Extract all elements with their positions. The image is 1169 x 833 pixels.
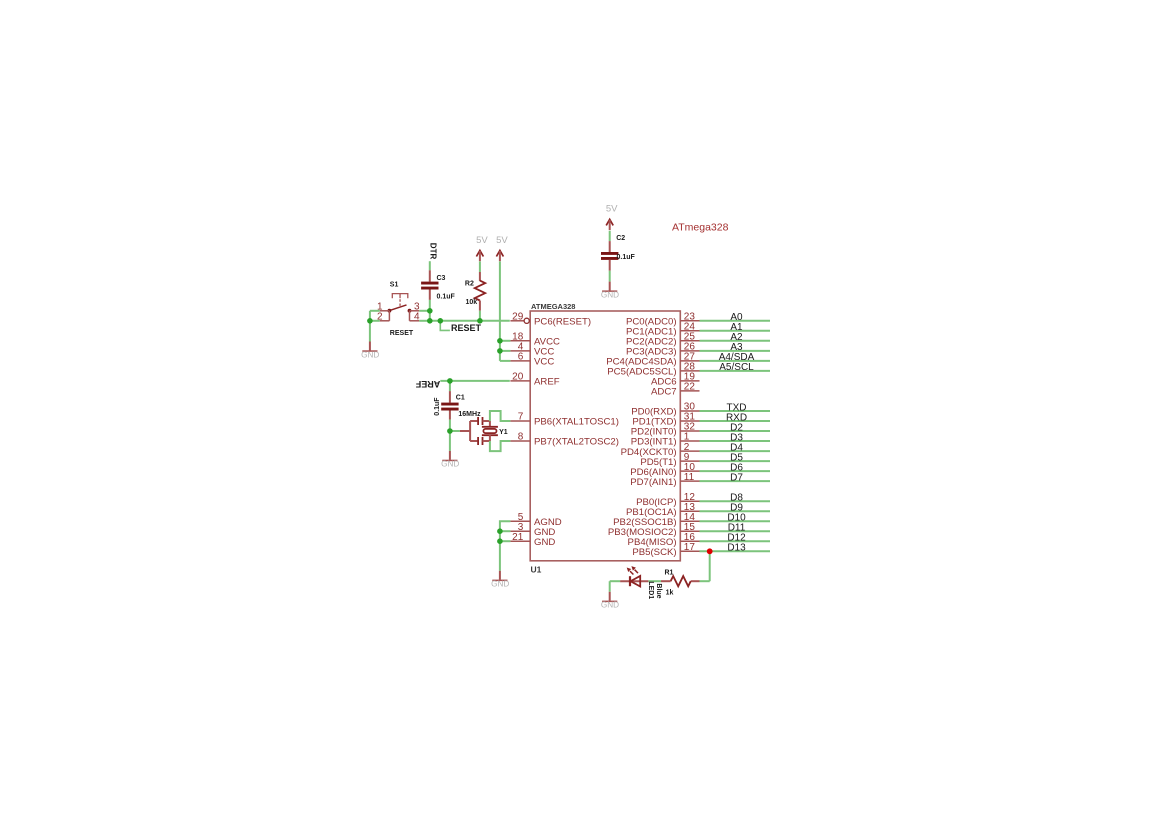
wire net D9	[700, 510, 771, 512]
svg-text:PB6(XTAL1TOSC1): PB6(XTAL1TOSC1)	[534, 417, 619, 428]
power 5V supply symbol (C2)	[606, 204, 618, 230]
crystal network left bracket	[460, 421, 478, 441]
svg-text:U1: U1	[531, 565, 542, 575]
pin 30 PD0(RXD) (right)	[631, 402, 699, 418]
capacitor C2 lead bottom	[609, 260, 611, 271]
wire S1 pin2	[370, 320, 380, 322]
capacitor C2	[601, 252, 618, 260]
pin 16 PB4(MISO) (right)	[628, 532, 700, 548]
pin 22 ADC7 (right)	[651, 382, 699, 398]
pin 23 PC0(ADC0) (right)	[626, 312, 700, 328]
switch S1 pin 4	[410, 311, 420, 323]
wire C2 to GND	[609, 271, 611, 282]
LED LED1 symbol	[620, 566, 648, 586]
svg-text:R1: R1	[665, 570, 674, 577]
wire rail to VCC pin4	[500, 350, 511, 352]
wire crystal to PB7 (staircase)	[490, 441, 511, 451]
ground (below LED1)	[601, 592, 619, 610]
wire net D3	[700, 440, 771, 442]
wire net D4	[700, 450, 771, 452]
switch S1 pin 2	[377, 311, 389, 323]
junction rail/GND pin21	[497, 538, 503, 544]
wire junction down to GND	[449, 431, 451, 451]
wire 5V to R2	[479, 261, 481, 272]
svg-text:4: 4	[414, 312, 420, 323]
wire net D5	[700, 460, 771, 462]
IC U1 ATmega328 body	[530, 311, 680, 561]
wire R1 to LED1 anode	[648, 580, 661, 582]
switch S1 symbol	[388, 294, 412, 313]
pin 11 PD7(AIN1) (right)	[630, 472, 699, 488]
pin 27 PC4(ADC4SDA) (right)	[606, 352, 699, 368]
wire crystal to PB6 (staircase)	[490, 411, 511, 421]
pin 17 PB5(SCK) (right)	[632, 542, 699, 558]
resistor R1 lead right	[691, 580, 700, 582]
pin 28 PC5(ADC5SCL) (right)	[607, 362, 699, 378]
ground (below S1)	[361, 342, 379, 360]
pin 31 PD1(TXD) (right)	[632, 412, 699, 428]
pin 1 PD3(INT1) (right)	[631, 432, 700, 448]
pin 9 PD5(T1) (right)	[640, 452, 699, 468]
svg-text:ATmega328: ATmega328	[672, 222, 729, 234]
pin 32 PD2(INT0) (right)	[631, 422, 700, 438]
wire rail to VCC pin6	[500, 360, 511, 362]
pin 20 AREF (left)	[510, 372, 559, 388]
svg-text:S1: S1	[390, 281, 399, 288]
svg-text:11: 11	[684, 472, 695, 483]
pin 24 PC1(ADC1) (right)	[626, 322, 700, 338]
svg-text:22: 22	[684, 382, 696, 393]
junction S1/GND	[367, 318, 373, 324]
load capacitor bottom (XTAL2)	[478, 437, 490, 445]
pin 7 PB6(XTAL1TOSC1) (left)	[510, 412, 619, 428]
ground (below C2)	[601, 282, 619, 300]
svg-text:GND: GND	[491, 580, 509, 589]
junction C3/RESET wire	[427, 318, 433, 324]
svg-text:PD7(AIN1): PD7(AIN1)	[630, 477, 676, 488]
svg-text:29: 29	[512, 312, 524, 323]
wire S1 pin3 to C3 net	[419, 310, 430, 312]
svg-text:Y1: Y1	[499, 429, 508, 436]
svg-text:17: 17	[684, 542, 696, 553]
junction rail/AVCC	[497, 338, 503, 344]
pin 19 ADC6 (right)	[651, 372, 699, 388]
wire 5V rail vertical	[499, 261, 501, 361]
junction C3/S1 pin3	[427, 308, 433, 314]
capacitor C3	[421, 282, 438, 290]
pin 12 PB0(ICP) (right)	[636, 492, 699, 508]
capacitor C3 lead bottom	[429, 290, 431, 300]
wire net D12	[700, 540, 771, 542]
junction RESET label	[438, 318, 444, 324]
wire rail to GND pin3	[500, 530, 511, 532]
wire net RXD	[700, 420, 771, 422]
pin 13 PB1(OC1A) (right)	[626, 502, 700, 518]
pin 2 PD4(XCKT0) (right)	[621, 442, 700, 458]
resistor R2 lead top	[479, 272, 481, 281]
pin 8 PB7(XTAL2TOSC2) (left)	[510, 432, 619, 448]
capacitor C2 lead top	[609, 241, 611, 252]
pin 21 GND (left)	[510, 532, 555, 548]
junction C1/Y1/GND	[447, 428, 453, 434]
wire RESET net to pin 29	[430, 320, 510, 322]
wire S1 left vertical	[369, 311, 371, 321]
wire net A2	[700, 340, 771, 342]
svg-text:8: 8	[518, 432, 524, 443]
wire net D8	[700, 500, 771, 502]
svg-text:20: 20	[512, 372, 524, 383]
wire AREF to C1	[449, 381, 451, 391]
pin 5 AGND (left)	[510, 512, 561, 528]
svg-text:7: 7	[518, 412, 524, 423]
capacitor C3 lead top	[429, 270, 431, 281]
resistor R1 lead left	[661, 580, 671, 582]
svg-text:AREF: AREF	[415, 379, 440, 389]
wire S1 to GND	[369, 321, 371, 342]
wire net D7	[700, 480, 771, 482]
wire R2 to RESET net	[479, 311, 481, 321]
wire net A4/SDA	[700, 360, 771, 362]
wire GND rail corner to AGND	[500, 521, 511, 541]
wire DTR to C3	[429, 261, 431, 270]
wire rail down to GND symbol	[499, 541, 501, 571]
wire net A3	[700, 350, 771, 352]
wire net D10	[700, 520, 771, 522]
resistor R2 zigzag	[475, 281, 486, 301]
junction R2/RESET wire	[477, 318, 483, 324]
crystal Y1 symbol	[482, 421, 498, 441]
svg-text:C2: C2	[616, 235, 625, 242]
svg-text:AREF: AREF	[534, 377, 560, 388]
wire AREF net to pin 20	[440, 380, 510, 382]
pin 26 PC3(ADC3) (right)	[626, 342, 700, 358]
pin 25 PC2(ADC2) (right)	[626, 332, 700, 348]
wire rail to GND pin21	[500, 540, 511, 542]
wire S1 pin1 loop	[370, 310, 380, 312]
svg-text:RESET: RESET	[451, 323, 482, 333]
svg-text:LED1: LED1	[647, 581, 654, 599]
svg-text:0.1uF: 0.1uF	[434, 397, 441, 416]
svg-text:16MHz: 16MHz	[458, 411, 481, 418]
pin 4 VCC (left)	[510, 342, 554, 358]
wire S1 pin4 to RESET net	[419, 320, 430, 322]
svg-text:6: 6	[518, 352, 524, 363]
resistor R1 zigzag	[671, 576, 691, 586]
load capacitor top (XTAL1)	[478, 417, 490, 425]
wire C1 to crystal junction	[449, 420, 451, 431]
pin 15 PB3(MOSIOC2) (right)	[608, 522, 700, 538]
switch S1 pin 1	[377, 302, 389, 313]
pin 3 GND (left)	[510, 522, 555, 538]
wire net D13	[700, 550, 771, 552]
pin 6 VCC (left)	[510, 352, 554, 368]
wire D13 down to R1	[709, 551, 711, 581]
svg-text:PB7(XTAL2TOSC2): PB7(XTAL2TOSC2)	[534, 437, 619, 448]
wire 5V to C2	[609, 231, 611, 241]
svg-text:GND: GND	[534, 537, 555, 548]
svg-text:1k: 1k	[666, 590, 674, 597]
junction rail/VCC pin4	[497, 348, 503, 354]
wire net D6	[700, 470, 771, 472]
wire net A0	[700, 320, 771, 322]
svg-text:GND: GND	[601, 601, 619, 610]
svg-text:GND: GND	[601, 290, 619, 299]
pin 18 AVCC (left)	[510, 332, 560, 348]
svg-text:D13: D13	[727, 543, 746, 554]
svg-text:0.1uF: 0.1uF	[617, 254, 636, 261]
pin 10 PD6(AIN0) (right)	[630, 462, 699, 478]
wire net TXD	[700, 410, 771, 412]
junction AREF/C1	[447, 378, 453, 384]
junction rail/GND pin3	[497, 528, 503, 534]
capacitor C1	[441, 403, 458, 411]
capacitor C1 lead bottom	[449, 411, 451, 420]
svg-text:GND: GND	[441, 460, 459, 469]
svg-text:21: 21	[512, 532, 524, 543]
svg-text:C1: C1	[456, 395, 465, 402]
wire rail to AVCC	[500, 340, 511, 342]
ground (below C1)	[441, 451, 459, 469]
svg-text:D7: D7	[730, 472, 743, 483]
svg-text:C3: C3	[437, 275, 446, 282]
switch S1 pin 3	[410, 302, 420, 313]
svg-text:Blue: Blue	[655, 583, 662, 598]
wire net A1	[700, 330, 771, 332]
resistor R2 lead bottom	[479, 301, 481, 311]
svg-text:5V: 5V	[476, 235, 488, 246]
svg-text:GND: GND	[361, 350, 379, 359]
wire net A5/SCL	[700, 370, 771, 372]
svg-text:VCC: VCC	[534, 357, 554, 368]
pin 14 PB2(SSOC1B) (right)	[613, 512, 699, 528]
wire C3 down across RESET net	[429, 300, 431, 321]
svg-text:R2: R2	[465, 280, 474, 287]
svg-text:RESET: RESET	[390, 330, 414, 337]
capacitor C1 lead top	[449, 391, 451, 403]
net label RESET leader	[440, 321, 450, 331]
svg-text:ATMEGA328: ATMEGA328	[531, 302, 575, 311]
pin 29 PC6(RESET) (left)	[510, 312, 591, 328]
wire net D11	[700, 530, 771, 532]
wire junction to crystal bracket	[450, 430, 460, 432]
svg-text:5V: 5V	[496, 235, 508, 246]
svg-text:PC6(RESET): PC6(RESET)	[534, 317, 591, 328]
svg-text:PB5(SCK): PB5(SCK)	[632, 547, 676, 558]
svg-text:10k: 10k	[466, 299, 478, 306]
wire net D2	[700, 430, 771, 432]
svg-text:DTR: DTR	[429, 243, 438, 260]
power 5V supply symbol (R2)	[476, 235, 488, 261]
wire to R1 right lead	[700, 580, 710, 582]
power 5V supply symbol (VCC rail)	[496, 235, 508, 261]
svg-text:A5/SCL: A5/SCL	[719, 362, 754, 373]
ground (below IC)	[491, 571, 509, 589]
wire LED1 cathode	[610, 580, 620, 582]
svg-text:5V: 5V	[606, 204, 618, 215]
svg-text:0.1uF: 0.1uF	[437, 294, 456, 301]
junction D13 (red dot)	[707, 548, 713, 554]
svg-text:ADC7: ADC7	[651, 387, 677, 398]
wire LED1 to GND	[609, 581, 611, 592]
